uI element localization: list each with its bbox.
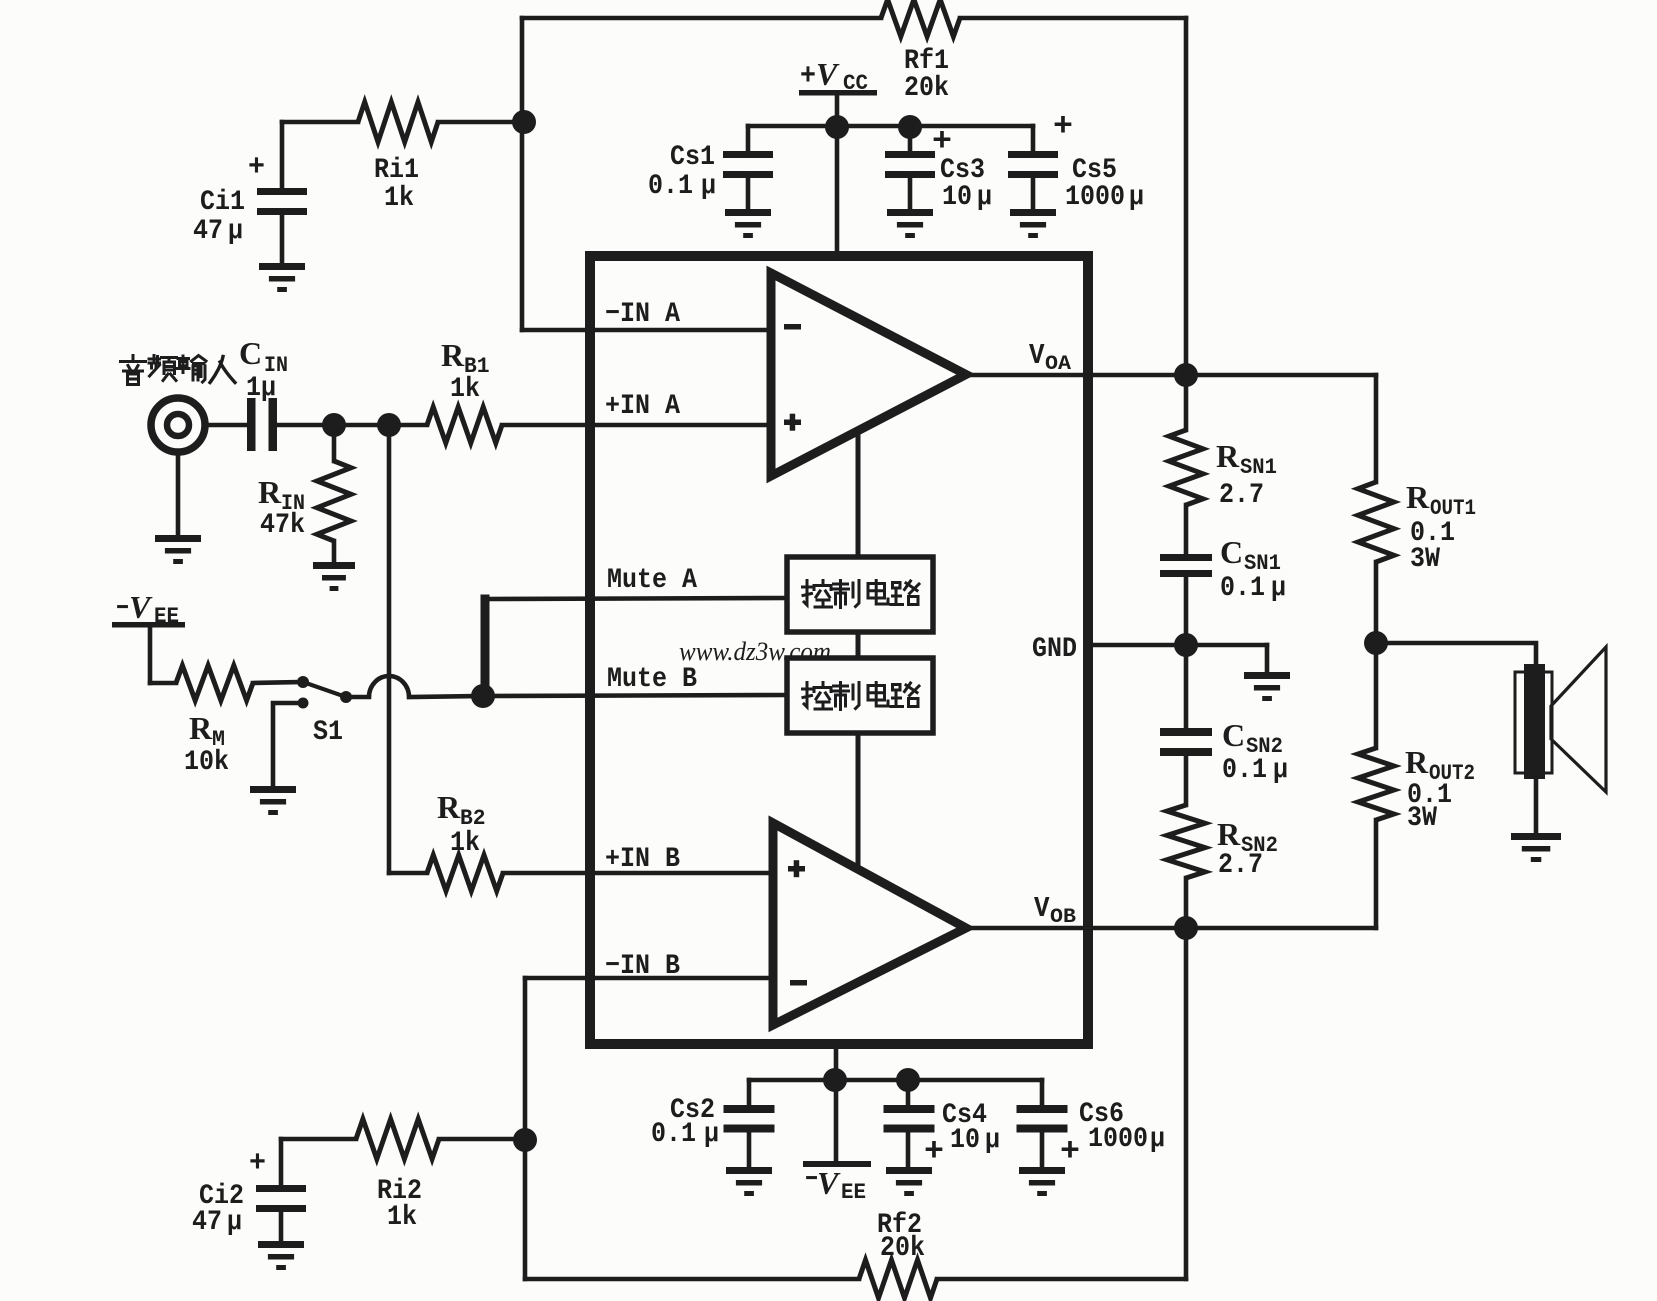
svg-text:CC: CC [843, 71, 868, 96]
svg-text:R: R [437, 789, 461, 825]
svg-text:C: C [1222, 717, 1245, 753]
svg-text:R: R [1217, 816, 1241, 852]
svg-text:R: R [189, 710, 213, 746]
svg-text:Cs1: Cs1 [670, 142, 715, 173]
svg-text:+IN A: +IN A [605, 391, 680, 422]
svg-text:S1: S1 [313, 717, 343, 748]
svg-text:Mute B: Mute B [607, 664, 697, 695]
svg-text:R: R [1405, 744, 1429, 780]
svg-text:0.1: 0.1 [651, 1119, 696, 1150]
svg-text:−IN A: −IN A [605, 299, 680, 330]
svg-text:47: 47 [193, 216, 223, 247]
svg-text:3W: 3W [1410, 544, 1440, 575]
svg-text:C: C [1220, 534, 1243, 570]
svg-text:3W: 3W [1407, 803, 1437, 834]
svg-text:20k: 20k [880, 1233, 925, 1264]
svg-text:μ: μ [701, 171, 716, 202]
svg-text:2.7: 2.7 [1219, 480, 1264, 511]
svg-text:1k: 1k [384, 183, 414, 214]
svg-text:V: V [817, 1165, 841, 1201]
svg-text:+: + [1053, 108, 1073, 145]
svg-text:Ci1: Ci1 [200, 187, 245, 218]
svg-text:OA: OA [1045, 353, 1071, 376]
svg-text:47k: 47k [260, 510, 305, 541]
svg-text:+: + [1060, 1133, 1080, 1170]
svg-text:1: 1 [246, 373, 261, 404]
svg-text:Ri1: Ri1 [374, 155, 419, 186]
svg-text:μ: μ [1273, 755, 1288, 786]
svg-text:V: V [816, 56, 840, 92]
svg-text:EE: EE [154, 604, 179, 629]
svg-text:OB: OB [1050, 906, 1076, 929]
svg-text:R: R [1406, 479, 1430, 515]
svg-text:μ: μ [227, 1207, 242, 1238]
svg-text:μ: μ [228, 216, 243, 247]
svg-text:μ: μ [1271, 573, 1286, 604]
svg-text:−IN B: −IN B [605, 951, 680, 982]
svg-text:1k: 1k [450, 374, 480, 405]
svg-text:0.1: 0.1 [1222, 755, 1267, 786]
svg-text:+: + [249, 1147, 266, 1181]
svg-text:+IN B: +IN B [605, 844, 680, 875]
svg-text:2.7: 2.7 [1218, 850, 1263, 881]
svg-text:μ: μ [985, 1125, 1000, 1156]
svg-text:0.1: 0.1 [1220, 573, 1265, 604]
svg-text:www.dz3w.com: www.dz3w.com [679, 637, 831, 666]
svg-text:μ: μ [261, 373, 276, 404]
svg-text:μ: μ [704, 1119, 719, 1150]
svg-text:GND: GND [1032, 634, 1077, 665]
svg-text:R: R [258, 474, 282, 510]
svg-text:10k: 10k [184, 747, 229, 778]
svg-text:1k: 1k [450, 828, 480, 859]
svg-text:20k: 20k [904, 73, 949, 104]
svg-text:−: − [116, 594, 129, 625]
svg-text:1000: 1000 [1088, 1124, 1148, 1155]
svg-text:V: V [129, 589, 153, 625]
svg-text:R: R [441, 337, 465, 373]
svg-text:C: C [239, 335, 262, 371]
svg-text:μ: μ [1150, 1124, 1165, 1155]
svg-text:+: + [800, 60, 816, 94]
svg-text:Mute A: Mute A [607, 565, 697, 596]
svg-text:V: V [1029, 339, 1045, 372]
svg-text:SN1: SN1 [1240, 455, 1277, 480]
svg-text:1k: 1k [387, 1202, 417, 1233]
svg-text:EE: EE [841, 1180, 866, 1205]
svg-text:10: 10 [950, 1125, 980, 1156]
svg-text:μ: μ [977, 182, 992, 213]
svg-text:R: R [1216, 438, 1240, 474]
svg-text:+: + [924, 1133, 944, 1170]
svg-text:V: V [1034, 892, 1050, 925]
svg-text:μ: μ [1129, 182, 1144, 213]
svg-text:1000: 1000 [1065, 182, 1125, 213]
svg-text:0.1: 0.1 [648, 171, 693, 202]
svg-text:+: + [248, 151, 265, 185]
svg-text:10: 10 [942, 182, 972, 213]
svg-text:47: 47 [192, 1207, 222, 1238]
